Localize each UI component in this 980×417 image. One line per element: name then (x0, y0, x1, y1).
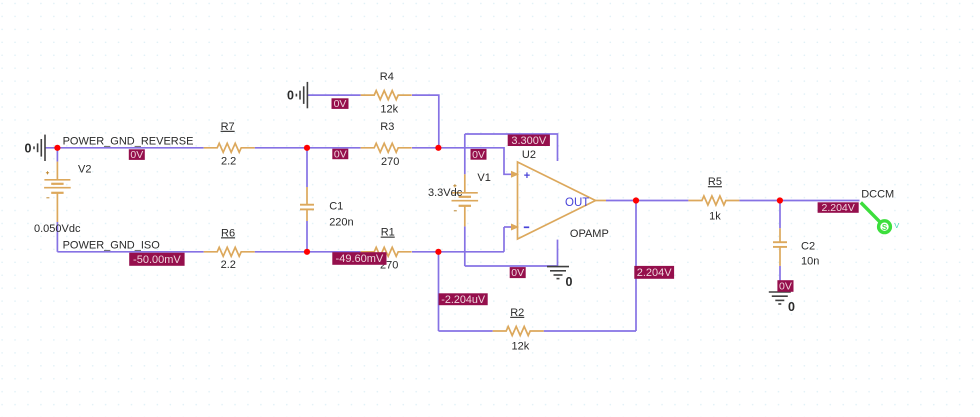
resistor R7 (204, 143, 255, 152)
wire op-amp minus input riser (503, 227, 505, 252)
junction C1 top node (304, 145, 310, 151)
svg-text:0V: 0V (779, 281, 792, 293)
bias label 2.204V at feedback (634, 266, 674, 279)
wire C2 top lead (779, 201, 781, 229)
wire feedback up to minus node (438, 252, 440, 331)
svg-text:-50.00mV: -50.00mV (133, 254, 181, 266)
wire V1 top lead (464, 134, 466, 174)
value 0.050Vdc (34, 223, 81, 235)
wire feedback right of R2 (544, 330, 636, 332)
wire feedback left of R2 (439, 330, 493, 332)
svg-text:0: 0 (287, 89, 294, 103)
svg-text:12k: 12k (512, 341, 530, 353)
svg-text:R7: R7 (221, 121, 235, 133)
value 10n (801, 255, 819, 267)
wire C1 bottom lead (306, 221, 308, 252)
value R4 12k (380, 103, 398, 115)
svg-text:OUT: OUT (565, 197, 589, 209)
voltage probe marker DCCM (861, 203, 899, 233)
bias label 0V at plus input (471, 149, 487, 161)
bias label -49.60mV at C1 bottom (332, 252, 386, 265)
label R5 (708, 176, 722, 188)
bias label 0V at C1 top (332, 149, 348, 161)
svg-text:0V: 0V (472, 149, 485, 161)
resistor R3 (361, 143, 412, 152)
svg-text:0: 0 (566, 275, 573, 289)
bias label 0V at R4 ground (332, 98, 349, 110)
svg-text:-2.204uV: -2.204uV (441, 294, 486, 306)
V2 stub leads (56, 162, 58, 222)
resistor R6 (204, 247, 255, 256)
svg-text:2.2: 2.2 (221, 259, 236, 271)
svg-text:OPAMP: OPAMP (570, 228, 609, 240)
bias label 0V at C2 ground (777, 280, 793, 292)
label R2 (510, 307, 524, 319)
svg-text:C1: C1 (329, 201, 343, 213)
bias label 2.204V at DCCM (818, 202, 859, 214)
wire V1 bottom lead (464, 226, 466, 266)
wire POWER_GND_REVERSE mid (255, 147, 361, 149)
ground 0 at op-amp V- (547, 267, 569, 279)
svg-text:2.204V: 2.204V (637, 267, 673, 279)
wire C1 top lead (306, 148, 308, 187)
svg-text:R4: R4 (380, 71, 394, 83)
svg-text:V: V (894, 221, 899, 230)
value 3.3Vdc (428, 187, 463, 199)
svg-text:0V: 0V (334, 98, 347, 110)
C2 stub leads (779, 228, 781, 266)
svg-text:1k: 1k (709, 211, 721, 223)
svg-text:220n: 220n (329, 216, 353, 228)
capacitor C2 (773, 242, 787, 247)
bias label -50.00mV at POWER_GND_ISO (129, 253, 184, 266)
label R3 (380, 121, 394, 133)
svg-text:V2: V2 (78, 164, 91, 176)
value R5 1k (709, 211, 721, 223)
svg-text:0: 0 (788, 300, 795, 314)
svg-text:POWER_GND_ISO: POWER_GND_ISO (63, 240, 161, 252)
svg-text:270: 270 (381, 156, 399, 168)
svg-text:U2: U2 (522, 149, 536, 161)
svg-text:+: + (524, 170, 530, 182)
svg-text:0: 0 (25, 141, 32, 155)
bias label 0V at POWER_GND_REVERSE (129, 149, 145, 161)
wire R1 to feedback node (412, 251, 504, 253)
value R3 270 (381, 156, 399, 168)
svg-text:3.3Vdc: 3.3Vdc (428, 187, 463, 199)
ground 0 label R4 (287, 89, 294, 103)
wire V2 bottom lead (56, 222, 58, 252)
svg-text:R3: R3 (380, 121, 394, 133)
wire POWER_GND_ISO left (57, 251, 203, 253)
junction V2 top node (54, 145, 60, 151)
svg-text:V1: V1 (477, 172, 490, 184)
wire V2 top lead (56, 148, 58, 162)
wire R4 ground side (308, 94, 361, 96)
wire R3 to op-amp plus input (412, 148, 513, 175)
value R2 12k (512, 341, 530, 353)
svg-text:C2: C2 (801, 241, 815, 253)
wire POWER_GND_REVERSE left (45, 147, 203, 149)
op-amp U2 (511, 162, 606, 239)
svg-text:2.204V: 2.204V (822, 202, 855, 214)
label C1 (329, 201, 343, 213)
label C2 (801, 241, 815, 253)
svg-text:R2: R2 (510, 307, 524, 319)
ground 0 at C2 (769, 292, 791, 304)
net label DCCM (861, 189, 894, 201)
value R7 2.2 (221, 156, 236, 168)
net label POWER_GND_REVERSE (63, 136, 194, 148)
wire POWER_GND_ISO mid (255, 251, 361, 253)
wire 3.3V power rail to op-amp V+ (465, 134, 558, 161)
svg-text:-49.60mV: -49.60mV (336, 253, 384, 265)
svg-text:0V: 0V (334, 149, 347, 161)
svg-text:R1: R1 (381, 227, 395, 239)
label R7 (221, 121, 235, 133)
wire R5 to DCCM (739, 200, 859, 202)
value R1 270 (380, 259, 398, 271)
bias label 0V at op-amp V- (510, 267, 526, 279)
junction C1 bottom node (304, 249, 310, 255)
svg-text:0V: 0V (130, 149, 143, 161)
wire V- rail to ground (465, 265, 558, 267)
bias label 3.300V at op-amp V+ (508, 135, 550, 147)
svg-text:3.300V: 3.300V (511, 135, 547, 147)
svg-text:10n: 10n (801, 255, 819, 267)
label R6 (221, 227, 235, 239)
svg-text:S: S (882, 223, 888, 232)
ground 0 label op-amp (566, 275, 573, 289)
bias label -2.204uV at minus input (439, 293, 488, 306)
junction R5 C2 node (777, 197, 783, 203)
wire op-amp output to R5 (606, 200, 688, 202)
ground 0 at V2 (34, 135, 45, 161)
wire R4 to node (412, 95, 439, 148)
svg-text:R6: R6 (221, 227, 235, 239)
net label POWER_GND_ISO (63, 240, 161, 252)
capacitor C1 (300, 205, 314, 210)
C1 stub leads (306, 187, 308, 221)
label R4 (380, 71, 394, 83)
V1 stub leads (464, 174, 466, 226)
junction R3 R4 node (435, 145, 441, 151)
value 220n (329, 216, 353, 228)
junction R1 feedback node (435, 249, 441, 255)
wire C2 bottom lead (779, 266, 781, 292)
label V2 (78, 164, 91, 176)
svg-text:12k: 12k (380, 103, 398, 115)
ground 0 at R4 (296, 82, 307, 108)
svg-text:0V: 0V (511, 267, 524, 279)
svg-text:POWER_GND_REVERSE: POWER_GND_REVERSE (63, 136, 194, 148)
label U2 (522, 149, 536, 161)
label OPAMP (570, 228, 609, 240)
battery V2 (44, 171, 71, 198)
ground 0 label V2 (25, 141, 32, 155)
label V1 (477, 172, 490, 184)
wire feedback down (635, 201, 637, 332)
ground 0 label C2 (788, 300, 795, 314)
resistor R4 (361, 91, 412, 100)
battery V1 (452, 184, 479, 211)
junction output node (633, 197, 639, 203)
wire op-amp V- pin (557, 240, 559, 266)
svg-text:DCCM: DCCM (861, 189, 894, 201)
value R6 2.2 (221, 259, 236, 271)
resistor R1 (361, 247, 412, 256)
resistor R5 (688, 196, 739, 205)
wire op-amp minus input (504, 226, 513, 228)
resistor R2 (493, 327, 544, 336)
svg-text:2.2: 2.2 (221, 156, 236, 168)
svg-text:R5: R5 (708, 176, 722, 188)
label R1 (381, 227, 395, 239)
svg-text:0.050Vdc: 0.050Vdc (34, 223, 81, 235)
